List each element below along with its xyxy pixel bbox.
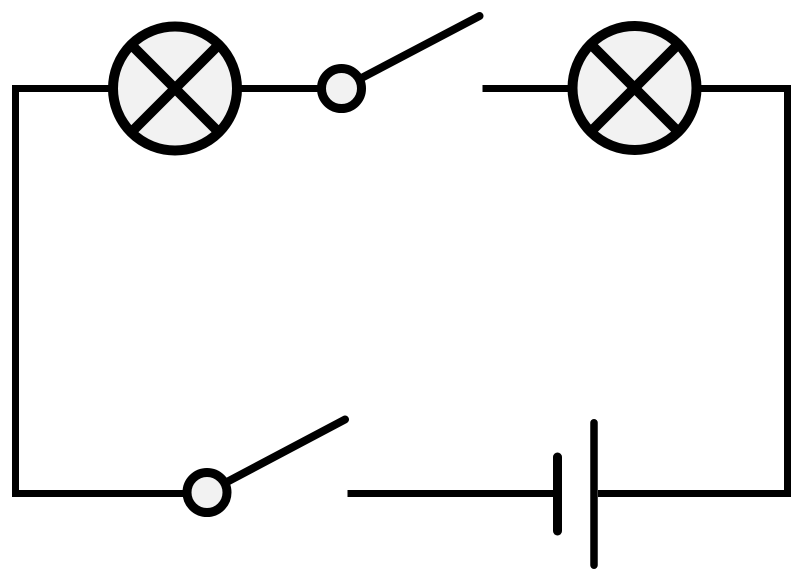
wire: between lamp L1 and switch S1 xyxy=(241,85,318,92)
wire: right vertical rail xyxy=(784,85,791,497)
wire: between switch S1 and lamp L2 xyxy=(483,85,569,92)
switch S1 (open: pivot circle with lever up-right) xyxy=(322,16,480,109)
wire: bottom-right horizontal, battery positive plate to right rail xyxy=(598,490,791,497)
battery BT1 positive plate (long thin) xyxy=(590,423,598,565)
wire: top-left horizontal, left rail to lamp L1 xyxy=(12,85,109,92)
battery BT1 negative plate (short thick) xyxy=(553,457,562,531)
wire: bottom-left horizontal, left rail to switch S2 xyxy=(12,490,184,497)
switch S2 (open: pivot circle with lever up-right) xyxy=(187,420,345,513)
wire: top-right horizontal, lamp L2 to right rail xyxy=(701,85,791,92)
lamp L1 (circle with inscribed X) xyxy=(113,27,237,151)
wire: between switch S2 and battery negative plate xyxy=(348,490,557,497)
lamp L2 (circle with inscribed X) xyxy=(573,26,697,150)
wire: left vertical rail xyxy=(12,85,19,497)
